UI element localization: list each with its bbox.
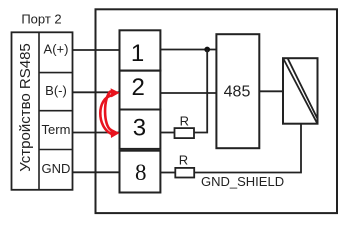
svg-text:485: 485 (224, 84, 251, 101)
wire GND to terminal 8 (73, 171, 120, 173)
svg-text:GND: GND (42, 161, 71, 176)
svg-text:R: R (180, 114, 189, 129)
485 transceiver box (216, 34, 259, 148)
device row divider A/B (39, 72, 73, 74)
wire terminal 3 to resistor R1 (160, 132, 174, 134)
wire resistor R1 to junction on line A (194, 50, 207, 133)
svg-text:GND_SHIELD: GND_SHIELD (201, 174, 284, 189)
device internal column divider (38, 32, 40, 190)
resistor R1 body (175, 128, 195, 138)
device row divider B/Term (39, 110, 73, 112)
terminal 8 box (120, 151, 161, 193)
svg-text:Term: Term (42, 122, 71, 137)
terminal 1 box (120, 30, 161, 70)
svg-text:Порт 2: Порт 2 (21, 12, 61, 27)
svg-text:3: 3 (133, 114, 146, 141)
isolator diagonal stripe 1 (284, 59, 318, 123)
svg-text:1: 1 (131, 40, 144, 67)
wire terminal 8 to resistor R2 (160, 172, 175, 174)
isolator diagonal stripe 2 (288, 59, 317, 119)
svg-text:R: R (179, 153, 188, 168)
resistor R2 body (175, 168, 194, 178)
converter outer enclosure box (96, 9, 338, 213)
svg-text:B(-): B(-) (45, 83, 67, 98)
device U1 box (Устройство RS485) (12, 32, 73, 190)
red swap arrow to line Term (lower arrowhead) (105, 91, 111, 130)
terminal 3 box (120, 110, 161, 149)
wire 485 transceiver to isolator (259, 90, 283, 92)
terminal 2 box (120, 71, 161, 110)
junction dot on line A (204, 47, 210, 53)
wire resistor R2 to isolator (GND_SHIELD net) (194, 124, 301, 173)
svg-text:8: 8 (135, 160, 147, 185)
red swap arrowhead upper (111, 88, 120, 97)
wire Term to terminal 3 (73, 132, 120, 134)
wire terminal 1 to 485 transceiver (line A) (160, 49, 216, 51)
red swap arrowhead lower (110, 128, 119, 138)
wire A(+) to terminal 1 (73, 49, 120, 51)
wire terminal 2 to 485 transceiver (line B) (160, 92, 216, 94)
device row divider Term/GND (39, 149, 73, 151)
isolator (DC/DC) box (283, 58, 318, 124)
svg-text:Устройство RS485: Устройство RS485 (17, 43, 34, 172)
svg-text:2: 2 (132, 74, 145, 101)
red swap arrow to line B (upper arrowhead) (100, 95, 112, 134)
svg-text:A(+): A(+) (44, 41, 69, 56)
wire B(-) to terminal 2 (73, 91, 120, 93)
